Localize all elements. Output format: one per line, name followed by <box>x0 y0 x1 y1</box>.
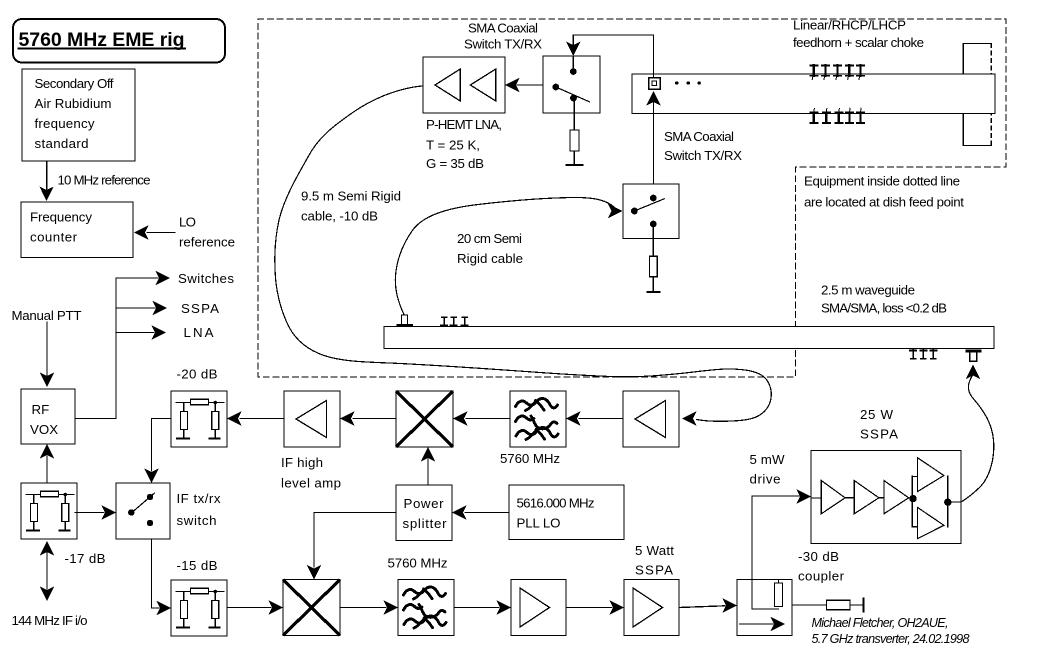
SSPA combiner rail right with junction <box>912 476 961 526</box>
arrowhead into LNA <box>505 78 520 92</box>
svg-text:SMA Coaxial: SMA Coaxial <box>664 129 734 144</box>
svg-text:VOX: VOX <box>30 422 58 437</box>
wire: IF high level amp to -20 dB attenuator <box>240 418 284 420</box>
svg-text:counter: counter <box>30 230 78 245</box>
label: power splitter <box>403 496 448 531</box>
waveguide SMA connector left <box>397 315 414 327</box>
svg-text:standard: standard <box>35 136 89 151</box>
wire: control to LNA <box>116 332 154 334</box>
svg-text:coupler: coupler <box>798 569 845 584</box>
wire: load resistor to termination <box>850 604 864 606</box>
IF high level amp box <box>284 391 340 447</box>
svg-text:5 mW: 5 mW <box>750 452 785 467</box>
arrowhead up into waveguide right connector <box>966 365 980 380</box>
wire: switch U2 lower contact to load resistor <box>573 101 575 130</box>
svg-text:PLL LO: PLL LO <box>517 516 561 531</box>
RF VOX label <box>30 402 58 437</box>
wire: load resistor to ground <box>573 151 575 165</box>
attenuator -17 dB box <box>21 483 77 539</box>
arrowhead into RF VOX <box>40 373 54 388</box>
feedhorn probes top group <box>810 65 864 79</box>
arrowhead into TX filter <box>384 600 399 614</box>
svg-text:Switch TX/RX: Switch TX/RX <box>464 37 542 52</box>
svg-text:SMA Coaxial: SMA Coaxial <box>468 21 538 36</box>
IF switch contacts and lever <box>128 493 154 526</box>
label: 2.5 m waveguide <box>821 283 947 316</box>
wire: RX filter to RX mixer <box>466 418 510 420</box>
dashed boundary: equipment at dish feed point <box>258 19 1006 377</box>
waveguide SMA connector right <box>966 350 982 362</box>
svg-text:LNA: LNA <box>184 325 214 340</box>
cable: 20 cm semi rigid from waveguide to switch U3 <box>395 198 614 315</box>
wire: switch U3 lower contact to load resistor <box>652 227 654 256</box>
svg-text:switch: switch <box>177 513 217 528</box>
svg-text:SMA/SMA, loss <0.2 dB: SMA/SMA, loss <0.2 dB <box>821 301 947 316</box>
svg-text:LO: LO <box>179 215 196 230</box>
label: P-HEMT LNA parameters <box>426 117 502 171</box>
svg-text:Switches: Switches <box>178 271 234 286</box>
TX driver amp box <box>511 580 566 636</box>
wire: IF switch TX port to -15 dB attenuator <box>152 539 160 608</box>
termination bar <box>863 599 865 612</box>
arrowhead into switch U3 from 20 cm cable <box>608 204 623 218</box>
arrowhead into coupler <box>723 598 738 612</box>
IF tx/rx switch box <box>116 483 170 539</box>
resistor: switch U3 termination load <box>649 256 657 277</box>
svg-text:5 Watt: 5 Watt <box>635 543 674 558</box>
wire: TX filter to driver amp <box>454 607 499 609</box>
svg-text:IF tx/rx: IF tx/rx <box>177 491 221 506</box>
svg-text:feedhorn + scalar choke: feedhorn + scalar choke <box>793 35 924 50</box>
wire: feedhorn connector down to switch U3 <box>653 101 655 195</box>
arrowhead up into RF VOX <box>40 444 54 459</box>
label: SMA Coaxial Switch TX/RX upper <box>464 21 542 52</box>
label: Linear/RHCP/LHCP feedhorn + scalar choke <box>793 18 924 51</box>
switch U3 contacts and lever <box>631 195 664 228</box>
arrowhead into IF high level amp <box>340 411 355 425</box>
wire: TX mixer to TX filter <box>341 607 386 609</box>
svg-text:Rigid cable: Rigid cable <box>457 251 523 266</box>
wire: RX preamp to RX filter <box>579 418 623 420</box>
scalar choke flange <box>963 44 991 146</box>
reference standard box <box>22 69 135 161</box>
svg-text:Michael Fletcher, OH2AUE,: Michael Fletcher, OH2AUE, <box>812 616 949 630</box>
ground under switch U3 load <box>648 291 660 293</box>
cable: 9.5 m semi rigid from LNA to RX amp <box>275 86 772 421</box>
wire: switch U2 to LNA <box>517 84 543 86</box>
arrowhead into RX amp from 9.5 m cable <box>682 411 697 425</box>
arrowhead down into IF switch <box>144 469 158 484</box>
svg-text:9.5 m Semi Rigid: 9.5 m Semi Rigid <box>301 189 401 204</box>
wire: reference standard to frequency counter <box>46 161 48 190</box>
svg-text:reference: reference <box>179 235 235 250</box>
feedhorn axis dots <box>675 81 701 84</box>
svg-text:cable, -10 dB: cable, -10 dB <box>301 209 378 224</box>
arrowhead into driver amp <box>497 600 512 614</box>
feedhorn SMA connector <box>649 78 661 90</box>
svg-text:5760 MHz: 5760 MHz <box>500 451 560 466</box>
label: IF tx/rx switch <box>177 491 221 528</box>
svg-text:Air Rubidium: Air Rubidium <box>35 96 112 111</box>
SSPA stage 1 triangle <box>811 481 854 514</box>
wire: -15 dB attenuator to TX mixer <box>227 607 271 609</box>
label: 5 Watt SSPA <box>635 543 674 578</box>
arrowhead into RX filter <box>566 411 581 425</box>
label: -30 dB coupler <box>798 549 845 584</box>
svg-text:level amp: level amp <box>281 476 341 491</box>
resistor: coupler output load <box>827 600 851 610</box>
svg-text:Secondary Off: Secondary Off <box>35 76 114 91</box>
arrowhead into -15 dB attenuator <box>157 601 172 615</box>
arrowhead SSPA <box>153 301 168 315</box>
wire: power splitter to TX mixer LO <box>314 513 396 568</box>
SSPA stage 3 triangle <box>884 481 912 514</box>
wire: RF VOX to control distribution node <box>75 278 116 419</box>
svg-text:RF: RF <box>32 402 50 417</box>
arrowhead up into -17 dB attenuator <box>40 541 54 556</box>
svg-text:25 W: 25 W <box>860 407 893 422</box>
arrowhead into frequency counter <box>39 187 53 202</box>
attenuator -20 dB box <box>171 391 227 447</box>
wire: switch U2 to feedhorn loop <box>573 35 653 77</box>
label: 9.5 m semi rigid cable <box>301 189 401 224</box>
label: IF high level amp <box>281 455 341 491</box>
arrowhead down into TX mixer <box>307 565 321 580</box>
arrowhead Switches <box>156 271 171 285</box>
arrowhead up into feedhorn connector <box>646 91 660 106</box>
reference standard label <box>35 76 114 151</box>
LNA box U1 <box>423 57 505 113</box>
svg-text:IF high: IF high <box>281 455 323 470</box>
wire: 5 Watt SSPA to coupler <box>679 606 725 608</box>
resistor: coupler internal tap <box>775 580 783 607</box>
svg-text:Manual PTT: Manual PTT <box>12 308 82 323</box>
feedhorn probes bottom group <box>810 108 864 123</box>
svg-text:G = 35 dB: G = 35 dB <box>426 156 484 171</box>
frequency counter label <box>30 210 92 245</box>
wire: coupled port inside coupler <box>752 580 779 610</box>
svg-text:Frequency: Frequency <box>30 210 92 225</box>
arrowhead into TX mixer <box>269 600 284 614</box>
wire: 5 mW drive from coupler to 25 W SSPA <box>752 496 800 580</box>
SSPA push-pull top triangle <box>918 458 944 492</box>
svg-text:Switch TX/RX: Switch TX/RX <box>664 148 742 163</box>
arrowhead into -20 dB attenuator <box>227 411 242 425</box>
SSPA push-pull bottom triangle <box>918 508 944 539</box>
label: 25 W SSPA <box>860 407 898 442</box>
label: 5616.000 MHz PLL LO <box>517 496 595 531</box>
SSPA stage 2 triangle <box>854 481 884 514</box>
arrowhead into 25 W SSPA <box>797 489 812 503</box>
svg-text:20 cm Semi: 20 cm Semi <box>457 231 522 246</box>
waveguide body: 2.5 m waveguide <box>384 327 994 349</box>
attenuator -15 dB box <box>171 580 227 636</box>
SSPA splitter rail left with junction <box>909 476 916 526</box>
RX preamp box <box>623 391 679 447</box>
svg-text:Linear/RHCP/LHCP: Linear/RHCP/LHCP <box>793 18 906 33</box>
coupler through-path direction arrow <box>740 617 786 631</box>
svg-text:5616.000 MHz: 5616.000 MHz <box>517 496 595 511</box>
wire: -20 dB attenuator to IF switch RX port <box>152 419 172 472</box>
svg-text:-15 dB: -15 dB <box>177 558 218 573</box>
waveguide flange marks left <box>441 317 468 326</box>
TX mixer <box>283 580 340 636</box>
wire: control to SSPA <box>116 307 155 309</box>
svg-text:5760 MHz: 5760 MHz <box>388 556 448 571</box>
svg-text:Power: Power <box>404 496 445 511</box>
LNA amplifier triangle 2 <box>470 69 496 101</box>
feedhorn body <box>632 74 995 114</box>
label: LO reference <box>179 215 235 250</box>
svg-text:2.5 m waveguide: 2.5 m waveguide <box>821 283 915 298</box>
title text <box>19 29 186 51</box>
25 W SSPA box <box>811 451 961 544</box>
svg-text:-20 dB: -20 dB <box>177 367 218 382</box>
svg-text:-30 dB: -30 dB <box>798 549 839 564</box>
svg-text:frequency: frequency <box>35 116 95 131</box>
wire: coupler output to load resistor <box>792 604 827 606</box>
arrowhead into 5 Watt SSPA <box>610 600 625 614</box>
credit text <box>812 616 970 646</box>
switch U2 box: SMA coaxial switch TX/RX <box>543 56 600 113</box>
RX filter 5760 MHz <box>510 391 566 447</box>
wire: PLL LO to power splitter <box>465 512 509 514</box>
waveguide flange marks right <box>910 350 936 359</box>
switch U3 box: SMA coaxial switch TX/RX at feed <box>623 184 679 239</box>
TX filter 5760 MHz <box>398 580 454 636</box>
5 Watt SSPA box <box>624 580 679 636</box>
wire: LO reference into counter <box>147 232 175 234</box>
arrowhead down 144 MHz IF <box>40 587 54 602</box>
svg-text:T = 25 K,: T = 25 K, <box>426 138 480 153</box>
wire: RX mixer to IF high level amp <box>353 418 396 420</box>
wire: load resistor to ground <box>652 277 654 292</box>
arrowhead LO reference <box>134 225 149 239</box>
RF VOX box <box>21 389 75 444</box>
svg-text:are located at dish feed point: are located at dish feed point <box>804 195 964 210</box>
svg-text:10 MHz reference: 10 MHz reference <box>58 173 151 188</box>
power splitter box <box>396 485 452 541</box>
resistor: switch U2 termination load <box>570 130 579 151</box>
arrowhead LNA <box>152 325 167 339</box>
arrowhead into IF switch <box>102 505 117 519</box>
arrowhead up into RX mixer <box>421 447 435 462</box>
PLL LO box <box>509 485 624 540</box>
wire: 144 MHz IF i/o double arrow <box>46 552 48 589</box>
label: 20 cm semi rigid cable <box>457 231 523 266</box>
label: 5 mW drive <box>750 452 785 487</box>
coupler box -30 dB <box>737 580 792 636</box>
svg-text:Equipment inside dotted line: Equipment inside dotted line <box>804 174 960 189</box>
svg-text:-17 dB: -17 dB <box>65 551 106 566</box>
arrowhead into power splitter <box>452 505 467 519</box>
LNA amplifier triangle 1 <box>435 69 460 101</box>
wire: power splitter to RX mixer LO <box>427 459 429 485</box>
arrowhead into switch U2 <box>566 42 580 57</box>
svg-text:splitter: splitter <box>403 516 448 531</box>
wire: control to Switches <box>116 277 158 279</box>
wire: -17 dB attenuator to RF VOX <box>46 456 48 483</box>
RX mixer <box>396 391 453 447</box>
title box: 5760 MHz EME rig <box>13 19 225 63</box>
label: SMA Coaxial Switch TX/RX at feed <box>664 129 742 163</box>
wire: -17 dB attenuator to IF switch <box>75 512 104 514</box>
arrowhead into RX mixer <box>453 411 468 425</box>
svg-text:drive: drive <box>750 472 781 487</box>
svg-text:144 MHz IF i/o: 144 MHz IF i/o <box>12 613 88 628</box>
label: equipment location note <box>804 174 964 210</box>
svg-text:5.7 GHz transverter, 24.02.199: 5.7 GHz transverter, 24.02.1998 <box>812 632 970 646</box>
ground under switch U2 load <box>567 164 583 166</box>
switch U2 contacts and lever <box>552 56 589 102</box>
wire: driver amp to 5 Watt SSPA <box>566 607 612 609</box>
cable: SSPA output to waveguide <box>962 375 994 502</box>
wire: Manual PTT to RF VOX <box>46 322 48 376</box>
svg-text:P-HEMT LNA,: P-HEMT LNA, <box>426 117 502 132</box>
frequency counter box <box>21 202 133 258</box>
